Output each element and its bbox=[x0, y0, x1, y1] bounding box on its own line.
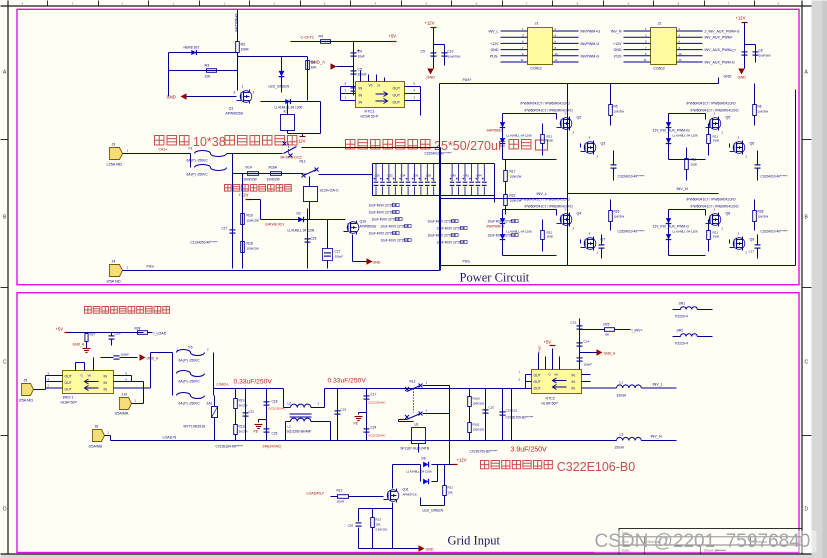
svg-text:+5V: +5V bbox=[56, 327, 64, 332]
svg-text:OUT: OUT bbox=[393, 101, 401, 105]
svg-text:CSDN @2201_75976840: CSDN @2201_75976840 bbox=[595, 531, 811, 552]
wires WK2 right pins bbox=[114, 375, 132, 377]
svg-text:R6: R6 bbox=[758, 105, 762, 109]
svg-text:0.33uF/250V: 0.33uF/250V bbox=[234, 379, 273, 386]
diode pair Q8 bbox=[668, 210, 670, 256]
svg-text:C30: C30 bbox=[375, 174, 381, 178]
svg-text:GND: GND bbox=[738, 76, 747, 80]
svg-text:PE: PE bbox=[354, 422, 359, 426]
svg-text:PUS-: PUS- bbox=[463, 260, 471, 264]
port J6 bbox=[93, 430, 105, 442]
svg-text:F1: F1 bbox=[189, 147, 193, 151]
capacitor C18b bbox=[266, 389, 268, 441]
svg-text:10K: 10K bbox=[376, 523, 381, 527]
wire INV_N rail bbox=[568, 193, 719, 195]
transistor Q1 bbox=[243, 92, 245, 102]
svg-text:10*38: 10*38 bbox=[193, 135, 226, 149]
svg-text:R22: R22 bbox=[510, 194, 516, 198]
diode D6 bbox=[392, 465, 394, 489]
svg-text:2_INV_AUX_PWM+G: 2_INV_AUX_PWM+G bbox=[705, 30, 740, 34]
mosfet Q4 bbox=[563, 215, 565, 225]
svg-text:CA1+: CA1+ bbox=[159, 148, 168, 152]
wire switch to bank bbox=[302, 147, 441, 149]
wire bottom bus PUS- bbox=[123, 270, 440, 272]
capacitor C17 bbox=[232, 174, 234, 269]
svg-text:SAF9501G: SAF9501G bbox=[487, 129, 504, 133]
svg-text:WK2-1: WK2-1 bbox=[63, 396, 74, 400]
svg-text:R14: R14 bbox=[246, 166, 252, 170]
svg-text:C: C bbox=[805, 360, 809, 366]
capacitor C19 lower bbox=[599, 244, 605, 246]
svg-text:INV_N: INV_N bbox=[651, 435, 662, 439]
svg-text:100K: 100K bbox=[547, 139, 554, 143]
svg-text:LL4148LL-34 1206: LL4148LL-34 1206 bbox=[407, 470, 433, 474]
resistor R3 bbox=[169, 70, 238, 72]
relay contact RL1 bbox=[304, 170, 317, 176]
svg-text:U1: U1 bbox=[415, 423, 419, 427]
svg-text:CX22E705-B0******: CX22E705-B0****** bbox=[506, 416, 535, 420]
svg-text:Q6: Q6 bbox=[750, 142, 755, 146]
svg-text:C29: C29 bbox=[115, 332, 121, 336]
svg-text:C27: C27 bbox=[335, 250, 341, 254]
svg-text:OUT: OUT bbox=[65, 388, 72, 392]
annotation bus capacitor note bbox=[346, 140, 355, 149]
svg-text:IN: IN bbox=[359, 101, 363, 105]
svg-text:9F1167-GU2-24TB: 9F1167-GU2-24TB bbox=[401, 447, 430, 451]
svg-text:100R: 100R bbox=[241, 48, 250, 52]
svg-text:R28: R28 bbox=[758, 210, 764, 214]
svg-text:100K/2W: 100K/2W bbox=[473, 402, 485, 406]
svg-text:CX22E334-MP*****: CX22E334-MP***** bbox=[216, 445, 244, 449]
svg-text:J5: J5 bbox=[24, 379, 28, 383]
svg-text:100K: 100K bbox=[547, 235, 554, 239]
svg-text:LL4148LL-34 1206: LL4148LL-34 1206 bbox=[288, 229, 315, 233]
svg-text:C322A010-40******: C322A010-40****** bbox=[618, 175, 646, 179]
bank capacitors group2 bbox=[451, 164, 453, 182]
svg-text:LL4148LL-34 1206: LL4148LL-34 1206 bbox=[507, 134, 533, 138]
resistor R8 bbox=[307, 57, 309, 101]
wire bus left vertical bbox=[439, 84, 441, 266]
wires HTC1 left pins bbox=[341, 86, 356, 88]
resistor R27 sensor bbox=[85, 334, 88, 342]
svg-text:R16A: R16A bbox=[269, 166, 278, 170]
svg-text:I25A MD: I25A MD bbox=[19, 399, 34, 403]
svg-text:ZA1: ZA1 bbox=[207, 402, 213, 406]
svg-text:8K: 8K bbox=[606, 333, 610, 337]
wire fuse to switch bbox=[227, 153, 283, 155]
op-amp U1 HTC1 HCSR-50P bbox=[356, 82, 405, 108]
svg-text:CON12: CON12 bbox=[654, 67, 665, 71]
diode pair Q2 bbox=[502, 114, 504, 160]
svg-text:V0: V0 bbox=[369, 84, 373, 88]
svg-text:10uF 400V 22*25: 10uF 400V 22*25 bbox=[437, 241, 462, 245]
diode D2 bbox=[261, 219, 346, 221]
annotation fuse note bbox=[155, 136, 164, 145]
diode pair Q5 bbox=[668, 114, 670, 160]
svg-text:V0: V0 bbox=[88, 374, 92, 378]
svg-text:10K/3W: 10K/3W bbox=[758, 110, 769, 114]
svg-text:D: D bbox=[3, 507, 7, 513]
svg-text:IN: IN bbox=[572, 387, 576, 391]
svg-text:C-CFT1: C-CFT1 bbox=[301, 36, 315, 40]
capacitor C14 HTC2 bbox=[577, 342, 583, 344]
svg-text:D6: D6 bbox=[422, 457, 426, 461]
svg-text:C36: C36 bbox=[413, 174, 419, 178]
svg-text:3: 3 bbox=[234, 91, 236, 95]
svg-text:Q11: Q11 bbox=[403, 488, 409, 492]
choke L2 bbox=[283, 389, 285, 408]
svg-text:LL4148LL-34 1206: LL4148LL-34 1206 bbox=[507, 230, 533, 234]
op-amp U3 HTC2 HLSR-50P bbox=[532, 370, 582, 394]
wire Q11 source down bbox=[392, 503, 394, 549]
fuse F7 bbox=[177, 393, 205, 399]
screen gray gutter bottom bbox=[1, 555, 812, 558]
svg-text:C322E106-B0: C322E106-B0 bbox=[557, 460, 636, 474]
wire N riser bbox=[399, 421, 414, 423]
svg-text:10uF/50V: 10uF/50V bbox=[448, 55, 461, 59]
wire J3 to fuses bbox=[123, 153, 191, 155]
earth PE left bbox=[259, 419, 267, 421]
svg-text:100K/2W: 100K/2W bbox=[247, 247, 260, 251]
svg-text:GND: GND bbox=[491, 48, 499, 52]
svg-text:10K/3W: 10K/3W bbox=[758, 215, 769, 219]
CSDN watermark bbox=[595, 531, 817, 553]
svg-text:C10: C10 bbox=[448, 50, 454, 54]
svg-text:R3: R3 bbox=[205, 64, 210, 68]
fuse F1 bbox=[195, 151, 227, 157]
svg-text:100K/2W: 100K/2W bbox=[510, 175, 522, 179]
svg-text:0A: 0A bbox=[555, 373, 559, 377]
svg-text:INV_AUX_PWM+: INV_AUX_PWM+ bbox=[705, 36, 733, 40]
svg-text:INV_L: INV_L bbox=[537, 192, 548, 196]
svg-text:C40: C40 bbox=[451, 174, 457, 178]
svg-text:GND_A: GND_A bbox=[311, 60, 326, 65]
earth PE right bbox=[359, 412, 367, 414]
svg-text:100K: 100K bbox=[691, 163, 698, 167]
svg-text:RL1: RL1 bbox=[300, 160, 306, 164]
svg-text:LOAD-N: LOAD-N bbox=[163, 436, 177, 440]
svg-text:+5V: +5V bbox=[544, 340, 552, 345]
resistor R28 sensor bbox=[138, 331, 148, 335]
svg-text:100nF: 100nF bbox=[121, 353, 130, 357]
svg-text:TO220-4: TO220-4 bbox=[675, 342, 688, 346]
resistor R110 bbox=[234, 425, 238, 435]
svg-text:OUT: OUT bbox=[534, 387, 541, 391]
resistor R10 bbox=[242, 174, 244, 269]
svg-text:C22: C22 bbox=[249, 410, 255, 414]
svg-text:6A (P) -250VC: 6A (P) -250VC bbox=[187, 173, 209, 177]
wires cluster Q4 bbox=[503, 209, 557, 211]
resistor R17 mid bbox=[504, 171, 508, 182]
power +5V sensor bbox=[65, 332, 71, 334]
svg-text:C38: C38 bbox=[426, 174, 432, 178]
svg-text:LL4148 LL-34 1206: LL4148 LL-34 1206 bbox=[275, 106, 303, 110]
svg-text:L1: L1 bbox=[620, 381, 624, 385]
svg-text:R17: R17 bbox=[510, 170, 516, 174]
mosfet Q3 bbox=[587, 143, 589, 153]
gate resistor Q4 bbox=[541, 231, 545, 240]
resistor R12 bbox=[331, 496, 338, 498]
svg-text:GND: GND bbox=[724, 75, 732, 79]
svg-text:+12V: +12V bbox=[425, 21, 435, 26]
svg-text:10: 10 bbox=[679, 52, 683, 56]
bank capacitors group1 bbox=[375, 164, 377, 182]
svg-text:R19: R19 bbox=[239, 399, 245, 403]
resistor R16A bbox=[271, 172, 282, 176]
svg-text:INVPWM-G: INVPWM-G bbox=[581, 42, 600, 46]
fuse F6 bbox=[177, 371, 205, 377]
svg-text:C26: C26 bbox=[311, 237, 317, 241]
svg-text:INV_N: INV_N bbox=[611, 30, 622, 34]
svg-text:IN: IN bbox=[104, 381, 108, 385]
svg-text:1K0R: 1K0R bbox=[337, 500, 345, 504]
svg-text:I_LOAD: I_LOAD bbox=[153, 332, 166, 336]
svg-text:Q5: Q5 bbox=[726, 116, 731, 120]
svg-text:INVPWM+G: INVPWM+G bbox=[581, 30, 601, 34]
svg-text:2: 2 bbox=[253, 91, 255, 95]
capacitor C9 bbox=[433, 28, 435, 66]
wire INV_L rail bbox=[440, 198, 568, 200]
svg-text:D2: D2 bbox=[297, 212, 301, 216]
svg-text:INVPWM-G: INVPWM-G bbox=[581, 55, 600, 59]
svg-text:10uF 400V 22*25: 10uF 400V 22*25 bbox=[381, 225, 406, 229]
svg-text:PUS: PUS bbox=[614, 55, 622, 59]
svg-text:R100: R100 bbox=[473, 397, 481, 401]
svg-text:GND: GND bbox=[427, 76, 436, 80]
svg-text:APW9926A: APW9926A bbox=[226, 112, 244, 116]
wire bridge mid vertical bbox=[567, 84, 569, 266]
svg-text:OUT: OUT bbox=[534, 374, 541, 378]
capacitor C15 bbox=[611, 164, 617, 166]
svg-text:SR2: SR2 bbox=[677, 329, 684, 333]
svg-text:R2: R2 bbox=[241, 43, 246, 47]
svg-text:100K/2W: 100K/2W bbox=[244, 178, 257, 182]
sheet frame bbox=[7, 1, 9, 555]
capacitor C10b bbox=[485, 389, 487, 441]
wire bottom gnd bus bbox=[359, 548, 419, 550]
svg-text:DC2/250VAC: DC2/250VAC bbox=[369, 401, 386, 405]
wire L bus to HTC2 bbox=[407, 388, 526, 390]
svg-text:+12V: +12V bbox=[613, 42, 622, 46]
capacitor C15b HTC2 bbox=[577, 357, 583, 359]
svg-text:C13: C13 bbox=[571, 321, 577, 325]
svg-text:J1: J1 bbox=[535, 22, 539, 26]
svg-text:10K: 10K bbox=[448, 491, 453, 495]
svg-text:C18: C18 bbox=[272, 400, 278, 404]
svg-text:C322A010-40******: C322A010-40****** bbox=[425, 152, 453, 156]
svg-text:CX22E705-B0******: CX22E705-B0****** bbox=[470, 450, 499, 454]
grid input section border bbox=[17, 293, 799, 553]
svg-text:C19: C19 bbox=[341, 408, 347, 412]
capacitor bank bus bbox=[373, 163, 495, 165]
svg-text:Q3: Q3 bbox=[601, 142, 606, 146]
svg-text:OUT: OUT bbox=[393, 87, 401, 91]
svg-text:C25: C25 bbox=[272, 432, 278, 436]
svg-text:LED_GREEN: LED_GREEN bbox=[269, 85, 290, 89]
varistor ZA1 bbox=[214, 396, 216, 407]
svg-text:Q1: Q1 bbox=[229, 107, 234, 111]
svg-text:IN: IN bbox=[104, 375, 108, 379]
capacitor C27 sensor bbox=[109, 335, 115, 337]
wires cluster Q2 bbox=[503, 113, 557, 115]
svg-text:100K: 100K bbox=[713, 235, 720, 239]
connector J2 bbox=[651, 28, 677, 65]
svg-text:J4: J4 bbox=[112, 260, 116, 264]
gate resistor Q2 bbox=[541, 135, 545, 144]
svg-text:DC2/250VAC: DC2/250VAC bbox=[369, 434, 386, 438]
svg-text:GND: GND bbox=[373, 261, 381, 265]
svg-text:3.9uF/250V: 3.9uF/250V bbox=[511, 447, 548, 454]
wire bus PUS+ top bbox=[440, 83, 719, 85]
svg-text:LED_GREEN: LED_GREEN bbox=[423, 509, 444, 513]
svg-text:GND_A: GND_A bbox=[73, 343, 85, 347]
ground GND right bbox=[738, 69, 744, 75]
wire bank mid vertical bbox=[440, 148, 442, 271]
svg-text:C5: C5 bbox=[358, 68, 362, 72]
wire J14 riser bbox=[132, 403, 144, 405]
svg-text:C24: C24 bbox=[371, 426, 377, 430]
svg-text:C9: C9 bbox=[421, 50, 425, 54]
svg-text:R28: R28 bbox=[135, 327, 141, 331]
mosfet Q5 bbox=[712, 119, 714, 129]
svg-text:CON12: CON12 bbox=[531, 67, 542, 71]
svg-text:HER8 30T: HER8 30T bbox=[184, 46, 200, 50]
resistor R22 mid bbox=[504, 195, 508, 206]
svg-text:6A (P) -250VC: 6A (P) -250VC bbox=[187, 159, 209, 163]
svg-text:D: D bbox=[805, 507, 809, 513]
svg-text:10uF 400V 22*25: 10uF 400V 22*25 bbox=[381, 239, 406, 243]
svg-text:RL2: RL2 bbox=[410, 380, 416, 384]
svg-text:GND_A: GND_A bbox=[604, 352, 616, 356]
svg-text:PUS-: PUS- bbox=[147, 265, 155, 269]
svg-text:IPW60R041C7 / IPW60R041CFD: IPW60R041C7 / IPW60R041CFD bbox=[687, 102, 737, 106]
capacitor C30 sensor bbox=[114, 355, 120, 357]
capacitor C10 bbox=[442, 52, 448, 54]
capacitor C25 bbox=[264, 428, 270, 430]
diode D7 bbox=[420, 465, 422, 482]
svg-text:Q4: Q4 bbox=[577, 212, 582, 216]
power +12V K1 bbox=[300, 136, 306, 138]
svg-text:MYT14D391K: MYT14D391K bbox=[184, 425, 207, 429]
svg-text:10K/3W: 10K/3W bbox=[614, 110, 625, 114]
svg-text:GND: GND bbox=[614, 48, 622, 52]
svg-text:C17: C17 bbox=[749, 250, 755, 254]
wire L bus to switch bbox=[325, 388, 407, 390]
svg-text:3K/2W: 3K/2W bbox=[239, 430, 248, 434]
switch S1 bbox=[284, 147, 297, 154]
svg-text:100K: 100K bbox=[713, 139, 720, 143]
svg-text:R11: R11 bbox=[691, 158, 697, 162]
svg-text:Power Circuit: Power Circuit bbox=[460, 271, 530, 285]
svg-text:LOAD-L: LOAD-L bbox=[217, 383, 230, 387]
svg-text:R10: R10 bbox=[247, 214, 253, 218]
capacitor C28 bbox=[358, 509, 360, 522]
screen gray gutter right bbox=[803, 1, 812, 555]
svg-text:GND: GND bbox=[426, 548, 434, 552]
capacitor C24 bbox=[364, 428, 370, 430]
svg-text:12: 12 bbox=[555, 58, 559, 62]
fuse F2 bbox=[190, 154, 192, 168]
svg-text:Q10: Q10 bbox=[360, 220, 367, 224]
svg-text:IN: IN bbox=[572, 374, 576, 378]
svg-text:C322A010-40******: C322A010-40****** bbox=[618, 230, 646, 234]
svg-text:INV_L: INV_L bbox=[489, 30, 499, 34]
svg-text:INV_AUX_PWM-: INV_AUX_PWM- bbox=[705, 48, 733, 52]
wire R2 to Q1 bbox=[237, 53, 239, 57]
capacitor C7 bbox=[744, 23, 746, 69]
svg-text:12V_INV_AUX_PWM+G: 12V_INV_AUX_PWM+G bbox=[653, 129, 691, 133]
svg-text:10: 10 bbox=[555, 52, 559, 56]
svg-text:6A (P) -250VC: 6A (P) -250VC bbox=[179, 380, 201, 384]
wire top tie bbox=[238, 56, 308, 58]
zone ticks top bbox=[47, 1, 49, 7]
capacitor C4 bbox=[353, 42, 355, 96]
capacitor C22 bbox=[245, 389, 247, 441]
svg-text:10uF 400V 22*25: 10uF 400V 22*25 bbox=[369, 211, 394, 215]
svg-text:PUS+: PUS+ bbox=[463, 78, 472, 82]
title block bbox=[619, 529, 802, 555]
annotation current sampling note bbox=[85, 307, 92, 314]
svg-text:PE: PE bbox=[254, 430, 259, 434]
svg-text:I25A/MA: I25A/MA bbox=[115, 412, 129, 416]
svg-text:6A (P) -250VC: 6A (P) -250VC bbox=[179, 402, 201, 406]
wires WK2 top pins bbox=[75, 363, 77, 371]
svg-text:GND: GND bbox=[167, 95, 176, 100]
svg-text:C32: C32 bbox=[387, 174, 393, 178]
mosfet Q2 bbox=[563, 119, 565, 129]
port J5 bbox=[22, 384, 34, 396]
svg-text:HTC1: HTC1 bbox=[365, 110, 375, 114]
svg-text:+12V: +12V bbox=[239, 193, 249, 198]
svg-text:1: 1 bbox=[242, 85, 244, 89]
svg-text:10uF 400V 22*25: 10uF 400V 22*25 bbox=[428, 234, 453, 238]
svg-text:IN: IN bbox=[359, 94, 363, 98]
wire +5V rail bbox=[341, 41, 394, 43]
svg-text:L3: L3 bbox=[620, 433, 624, 437]
svg-text:100nF: 100nF bbox=[584, 363, 593, 367]
svg-text:+12V: +12V bbox=[490, 42, 499, 46]
resistor R4 bbox=[291, 41, 354, 43]
gate resistor Q8 bbox=[707, 231, 711, 240]
svg-text:F5: F5 bbox=[189, 346, 193, 350]
wires HTC1 right pins bbox=[405, 86, 421, 88]
svg-text:INV_L: INV_L bbox=[653, 383, 664, 387]
svg-text:C34: C34 bbox=[400, 174, 406, 178]
capacitor C27 bbox=[323, 249, 333, 261]
svg-text:R13: R13 bbox=[376, 518, 382, 522]
relay RL2 9F1167 bbox=[412, 428, 426, 444]
power +5V bbox=[391, 41, 397, 43]
wire J5 to WK2 bbox=[34, 389, 46, 391]
capacitor C17b bbox=[366, 389, 368, 441]
ground GND_A arrow bbox=[331, 63, 337, 69]
power +12V right bbox=[742, 22, 748, 24]
capacitor C13 HTC2 bbox=[579, 319, 581, 370]
svg-text:10K: 10K bbox=[205, 75, 212, 79]
svg-text:L2: L2 bbox=[288, 425, 292, 429]
svg-text:100uF: 100uF bbox=[335, 255, 344, 259]
svg-text:L2: L2 bbox=[288, 402, 292, 406]
capacitor C5 bbox=[351, 70, 357, 72]
annotation softstart note bbox=[225, 185, 232, 192]
op-amp U2 WK2 HLSR-50P bbox=[63, 371, 114, 394]
svg-text:24A(24V/AC): 24A(24V/AC) bbox=[263, 445, 282, 449]
svg-text:LOAD/RLY: LOAD/RLY bbox=[307, 492, 325, 496]
svg-text:10uF 400V 22*25: 10uF 400V 22*25 bbox=[428, 220, 453, 224]
svg-text:C17: C17 bbox=[371, 393, 377, 397]
svg-text:12: 12 bbox=[679, 58, 683, 62]
svg-text:C42: C42 bbox=[464, 174, 470, 178]
